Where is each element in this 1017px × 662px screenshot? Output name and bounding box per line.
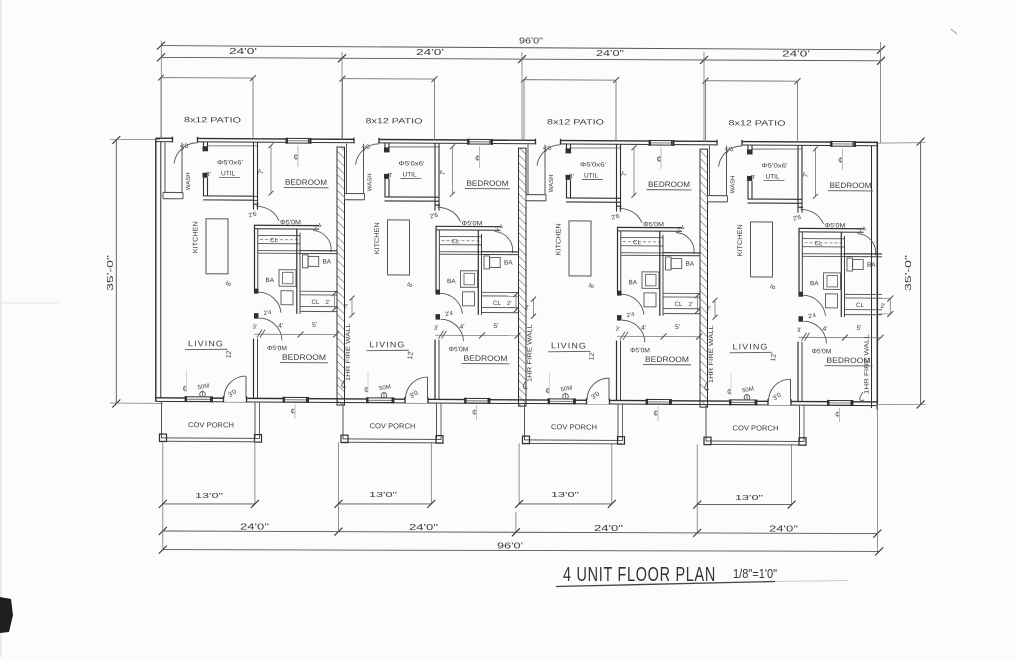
svg-text:24'0': 24'0' [416,48,445,57]
svg-text:96'0": 96'0" [519,37,543,46]
unit 4: closet CL (lower) [845,293,883,295]
building exterior: top wall [155,138,878,142]
96-0 bottom dimension line [163,550,879,552]
bottom connector extension lines [162,504,164,551]
svg-text:12': 12' [770,352,778,361]
unit 2: bath core middle wall [477,230,479,315]
svg-text:5': 5' [312,322,317,329]
faint margin line [0,302,58,304]
unit 4: bath door 2-4 arc [858,234,876,256]
unit 2: kitchen counter [388,220,410,275]
unit 4: bath core left wall [798,228,800,294]
unit 3: bath core middle wall [659,231,661,316]
unit 2: bedroom1 window (top wall) [468,139,491,145]
svg-text:COV PORCH: COV PORCH [733,423,779,432]
unit 4: 4ft/4ft dimension line [799,336,882,338]
unit 1: living window centerline [186,370,188,392]
unit 3: bedroom2 door arcs [621,294,644,315]
unit 3: bedroom2 window (bottom wall) [647,399,671,405]
unit 1: bath dividing wall [300,250,338,252]
svg-text:Φ5'0M: Φ5'0M [267,345,287,352]
unit 3: shower/tub fixture [642,272,659,289]
svg-text:¢: ¢ [475,153,480,163]
unit 4: shower/tub fixture [824,273,841,290]
unit 2: bath door 2-4 arc [495,231,513,253]
svg-text:¢: ¢ [546,386,550,395]
svg-text:BA: BA [810,280,819,287]
unit 1: 1-hr fire wall (hatched) [337,147,345,405]
svg-text:Φ5'0M: Φ5'0M [462,220,483,227]
unit 4: patio entry door 3-0 (top wall) [717,140,743,146]
svg-text:COV PORCH: COV PORCH [370,421,416,430]
unit 3: bath core left wall [617,227,619,293]
svg-text:3': 3' [206,171,211,178]
unit 4: toilet (BA upper) [847,258,853,271]
svg-text:LIVING: LIVING [551,341,587,350]
svg-text:4': 4' [641,325,646,332]
svg-text:LIVING: LIVING [733,342,769,351]
svg-text:CL: CL [675,301,683,308]
unit 2: 7 ft dimension [452,146,454,195]
unit 3: kitchen counter [569,221,591,276]
svg-text:¢: ¢ [183,384,187,393]
svg-text:CL: CL [856,302,864,309]
svg-text:BEDROOM: BEDROOM [285,178,327,187]
unit 2: utility header line [390,146,439,149]
svg-text:24'0": 24'0" [409,523,438,532]
svg-text:2': 2' [881,303,886,310]
svg-text:BEDROOM: BEDROOM [464,354,508,363]
svg-text:5': 5' [857,325,862,332]
24-0 bottom dimension line [163,531,877,534]
unit 4: kitchen 2 ft dimension [714,300,716,317]
svg-text:¢: ¢ [835,410,839,419]
unit 4: living/bedroom2 partition wall [797,342,799,402]
svg-text:UTIL: UTIL [221,170,235,177]
unit 1: porch posts [160,434,167,442]
svg-text:24'0": 24'0" [240,523,269,532]
svg-text:13'0": 13'0" [195,491,223,500]
unit 1: lavatory fixture [281,291,293,305]
unit 1: bedroom1 window centerline [297,145,299,167]
unit 1: patio entry door 3-0 (top wall) [172,137,198,143]
svg-text:35'-0": 35'-0" [904,255,913,291]
svg-text:¢: ¢ [727,387,731,396]
svg-text:CL: CL [312,299,320,306]
unit 1: bath core top wall [254,224,319,226]
svg-text:CL: CL [452,238,460,245]
unit 1: utility header line [208,145,257,148]
13-0 porch dimension lines [163,503,255,505]
unit 2: living window (bottom wall) [367,397,393,403]
svg-text:Φ5'0M: Φ5'0M [449,346,469,353]
svg-text:12': 12' [226,349,234,358]
unit 2: bath dividing wall [482,251,520,253]
unit 1: utility room walls [203,142,205,151]
unit 4: closet CL (upper) [803,238,845,240]
unit 3: toilet (BA upper) [666,257,672,270]
unit 1: bedroom2 window (bottom wall) [284,397,308,403]
svg-text:5': 5' [494,323,499,330]
svg-text:Φ5'0x6': Φ5'0x6' [762,162,788,169]
right dimension 35-0 [920,142,922,405]
svg-text:1HR FIRE WALL: 1HR FIRE WALL [345,322,352,381]
unit 2: bedroom1 window centerline [479,146,481,168]
unit 2: closet CL (upper) [440,235,482,237]
unit 2: closet 2 ft dimension [515,295,517,311]
svg-text:KITCHEN: KITCHEN [556,223,563,255]
scan edge shading left margin [0,0,2,657]
svg-text:3': 3' [253,325,257,331]
unit 1: hall door 2-6 arc [256,206,279,221]
svg-text:Φ5'0M: Φ5'0M [643,221,664,228]
unit 3: living/bedroom2 partition wall [616,341,618,401]
unit 3: bedroom2 window centerline [657,406,659,421]
unit 3: 7 ft dimension [633,147,635,196]
unit 3: closet 2 ft dimension [697,296,699,312]
unit4 closet 2ft dimension (outside right wall) [889,299,891,315]
unit 3: hall door 2-6 arc [619,208,642,223]
svg-text:CL: CL [270,237,278,244]
unit 1: toilet (BA upper) [303,255,309,268]
unit 1: living/bedroom2 partition wall [253,339,255,399]
unit 3: 1-hr fire wall (hatched) [700,149,708,407]
svg-text:COV PORCH: COV PORCH [188,420,234,429]
svg-text:8x12 PATIO: 8x12 PATIO [729,118,786,127]
unit 2: bedroom2 window centerline [476,405,478,420]
top extension lines [160,41,162,140]
unit 1: cabinet/pantry along left wall [164,143,166,193]
svg-text:Φ5'0x6': Φ5'0x6' [217,159,243,166]
unit 3: bedroom1 window (top wall) [650,140,673,146]
svg-text:3': 3' [797,328,801,334]
svg-text:KITCHEN: KITCHEN [737,224,744,256]
svg-text:1HR FIRE WALL: 1HR FIRE WALL [527,323,534,382]
unit 2: bedroom2 door arcs [440,293,463,314]
left dimension 35-0 [115,140,117,404]
svg-text:Φ5'0M: Φ5'0M [280,219,301,226]
unit 3: porch posts [523,436,530,444]
unit 4: utility room walls [747,145,749,154]
unit 1: closet CL (lower) [300,290,338,292]
svg-text:Φ5'0M: Φ5'0M [812,348,832,355]
unit 1: bath core left wall [254,225,256,291]
svg-text:¢: ¢ [291,407,295,416]
unit 2: patio entry door 3-0 (top wall) [354,138,380,144]
svg-text:2': 2' [707,306,711,312]
svg-text:COV PORCH: COV PORCH [551,422,597,431]
unit 2: toilet (BA upper) [484,256,490,269]
unit 3: closet CL (lower) [663,292,701,294]
unit 1: 4ft/4ft dimension line [254,333,337,335]
svg-text:8x12 PATIO: 8x12 PATIO [547,117,604,126]
svg-text:96'0': 96'0' [497,542,524,551]
unit 3: kitchen 2 ft dimension [533,299,535,316]
unit 4: porch posts [704,437,711,445]
unit 4: bedroom2 window centerline [839,407,841,422]
svg-text:UTIL: UTIL [766,174,780,181]
unit 1: bedroom2 window centerline [294,404,296,419]
unit 2: bath core left wall [435,226,437,292]
svg-text:WASH: WASH [186,172,192,190]
unit 4: bedroom2 door arcs [803,295,826,316]
unit 1: bedroom1 window (top wall) [287,138,310,144]
unit 4: lavatory fixture [826,294,838,308]
unit 3: bath dividing wall [663,252,701,254]
svg-text:BA: BA [686,261,695,268]
unit 2: front door 3-0 [405,397,429,403]
unit 4: front door 3-0 [768,399,792,405]
svg-text:35'-0": 35'-0" [106,255,115,291]
unit 1: living window (bottom wall) [186,396,212,402]
svg-text:LIVING: LIVING [188,339,224,348]
unit 2: 1-hr fire wall (hatched) [519,148,527,406]
small stray mark top right [951,29,957,34]
svg-text:4': 4' [823,326,828,333]
svg-text:3': 3' [751,174,756,181]
unit 4: utility header line [753,148,802,151]
svg-text:12': 12' [589,351,597,360]
svg-text:4': 4' [460,324,465,331]
unit 4: bedroom1 window (top wall) [831,141,854,147]
unit 3: lavatory fixture [644,293,656,307]
unit 3: 4ft/4ft dimension line [617,335,700,337]
svg-text:BA: BA [266,277,275,284]
unit 4: hall door 2-6 arc [801,209,824,224]
unit 4: living window (bottom wall) [730,399,756,405]
svg-text:KITCHEN: KITCHEN [193,221,200,253]
bottom porch extension lines [162,441,164,504]
svg-text:LIVING: LIVING [370,340,406,349]
svg-text:24'0': 24'0' [229,47,258,56]
unit 2: cabinet/pantry along left wall [346,144,348,194]
unit 1: bedroom2 door arcs [258,292,281,313]
svg-text:¢: ¢ [654,409,658,418]
svg-text:3': 3' [616,327,620,333]
building exterior: left wall [155,138,157,401]
unit 2: kitchen 2 ft dimension [351,298,353,315]
unit 4: covered porch outline [705,405,707,441]
svg-text:¢: ¢ [364,385,368,394]
unit 2: living/bedroom2 partition wall [434,340,436,400]
svg-text:8x12 PATIO: 8x12 PATIO [184,115,241,124]
unit 2: 8x12 patio outline [343,79,435,140]
unit 2: lavatory fixture [463,292,475,306]
svg-text:4': 4' [278,323,283,330]
unit 3: closet CL (upper) [621,236,663,238]
svg-text:1HR FIRE WALL: 1HR FIRE WALL [708,324,715,383]
svg-text:2': 2' [689,302,693,308]
svg-text:CL: CL [633,239,641,246]
unit 3: patio entry door 3-0 (top wall) [535,139,561,145]
svg-text:3': 3' [434,326,438,332]
unit 1: bath door 2-4 arc [313,230,331,252]
svg-text:2': 2' [507,301,511,307]
unit 3: utility room walls [566,144,568,153]
svg-text:UTIL: UTIL [584,172,598,179]
unit 1: bath core middle wall [296,229,298,314]
unit 4: bedroom1 window centerline [842,148,844,170]
svg-text:1HR FIRE WALL: 1HR FIRE WALL [864,333,871,394]
svg-text:3': 3' [388,172,393,179]
unit 4: bedroom2 window (bottom wall) [828,400,852,406]
unit 4: bath core top wall [799,227,864,229]
unit 3: bath door 2-4 arc [676,233,694,255]
svg-text:Φ5'0x6': Φ5'0x6' [399,160,425,167]
svg-text:CL: CL [493,300,501,307]
svg-text:BA: BA [323,258,332,265]
svg-text:24'0": 24'0" [769,524,798,533]
unit 2: utility room walls [384,143,386,152]
unit 2: porch posts [341,435,348,443]
svg-text:Φ5'0M: Φ5'0M [825,222,846,229]
unit 1: covered porch outline [161,401,163,437]
unit 1: front door 3-0 [223,396,247,402]
svg-text:BA: BA [867,262,876,269]
unit 4: bath dividing wall [845,253,883,255]
svg-text:24'0": 24'0" [596,49,624,58]
unit 1: kitchen counter [206,219,228,274]
svg-text:BEDROOM: BEDROOM [467,179,509,188]
top dimension line 96-0 [161,46,881,50]
unit 3: bath core top wall [617,226,682,228]
svg-text:13'0": 13'0" [369,490,397,499]
svg-text:2': 2' [344,304,348,310]
unit 4: bath core middle wall [840,232,842,317]
svg-text:¢: ¢ [657,154,662,164]
unit 3: living window centerline [549,372,551,394]
svg-text:BA: BA [504,260,513,267]
unit 1: shower/tub fixture [279,270,296,287]
unit 2: shower/tub fixture [461,271,478,288]
unit 3: cabinet/pantry along left wall [527,145,529,195]
svg-text:24'0': 24'0' [782,50,811,59]
svg-text:2': 2' [326,300,330,306]
unit 4: kitchen counter [751,222,773,277]
svg-text:BA: BA [629,279,638,286]
svg-text:Φ5'0x6': Φ5'0x6' [580,161,606,168]
building exterior: right wall [876,142,878,409]
svg-text:KITCHEN: KITCHEN [374,222,381,254]
svg-text:UTIL: UTIL [403,171,417,178]
unit 4: cabinet/pantry along left wall [709,146,711,196]
svg-text:¢: ¢ [294,152,299,162]
svg-text:BEDROOM: BEDROOM [282,353,326,362]
unit 2: closet CL (lower) [482,291,520,293]
svg-text:WASH: WASH [368,173,374,191]
scan artifact blob bottom-left [0,597,13,633]
svg-text:¢: ¢ [838,155,843,165]
svg-text:WASH: WASH [549,174,555,192]
unit 3: living window (bottom wall) [549,398,575,404]
svg-text:Φ5'0M: Φ5'0M [630,347,650,354]
unit 1: 7 ft dimension [270,145,272,194]
svg-text:1/8"=1'0": 1/8"=1'0" [733,567,777,581]
unit 2: covered porch outline [342,402,344,438]
unit 1: closet 2 ft dimension [334,294,336,310]
svg-text:4 UNIT FLOOR PLAN: 4 UNIT FLOOR PLAN [563,564,716,586]
building exterior: bottom wall [155,398,878,402]
top dimension line 24-0 x4 [161,57,881,60]
svg-text:CL: CL [815,240,823,247]
unit 2: living window centerline [367,371,369,393]
unit 2: bath core top wall [436,225,501,227]
svg-text:13'0": 13'0" [551,490,579,499]
unit 2: hall door 2-6 arc [438,207,461,222]
unit 4: 8x12 patio outline [706,81,798,142]
svg-text:BEDROOM: BEDROOM [648,180,690,189]
unit 4: living window centerline [730,373,732,395]
unit 3: front door 3-0 [586,398,610,404]
unit 2: 4ft/4ft dimension line [436,334,519,336]
svg-text:24'0": 24'0" [594,524,623,533]
svg-text:WASH: WASH [731,176,737,194]
unit 3: bedroom1 window centerline [660,147,662,169]
unit 3: covered porch outline [524,404,526,440]
unit 3: utility header line [571,147,620,150]
unit 4: 7 ft dimension [815,148,817,197]
svg-text:12': 12' [407,350,415,359]
svg-text:BA: BA [447,278,456,285]
unit 2: bedroom2 window (bottom wall) [465,398,489,404]
svg-text:3': 3' [569,173,574,180]
svg-text:8x12 PATIO: 8x12 PATIO [366,116,423,125]
svg-text:BEDROOM: BEDROOM [645,355,689,364]
svg-text:13'0": 13'0" [735,493,763,502]
svg-text:¢: ¢ [472,408,476,417]
svg-text:5': 5' [675,324,680,331]
unit 1: 8x12 patio outline [161,78,253,139]
unit 1: closet CL (upper) [258,234,300,236]
svg-text:2': 2' [525,305,529,311]
unit 3: 8x12 patio outline [524,80,616,141]
svg-text:BEDROOM: BEDROOM [830,181,872,190]
